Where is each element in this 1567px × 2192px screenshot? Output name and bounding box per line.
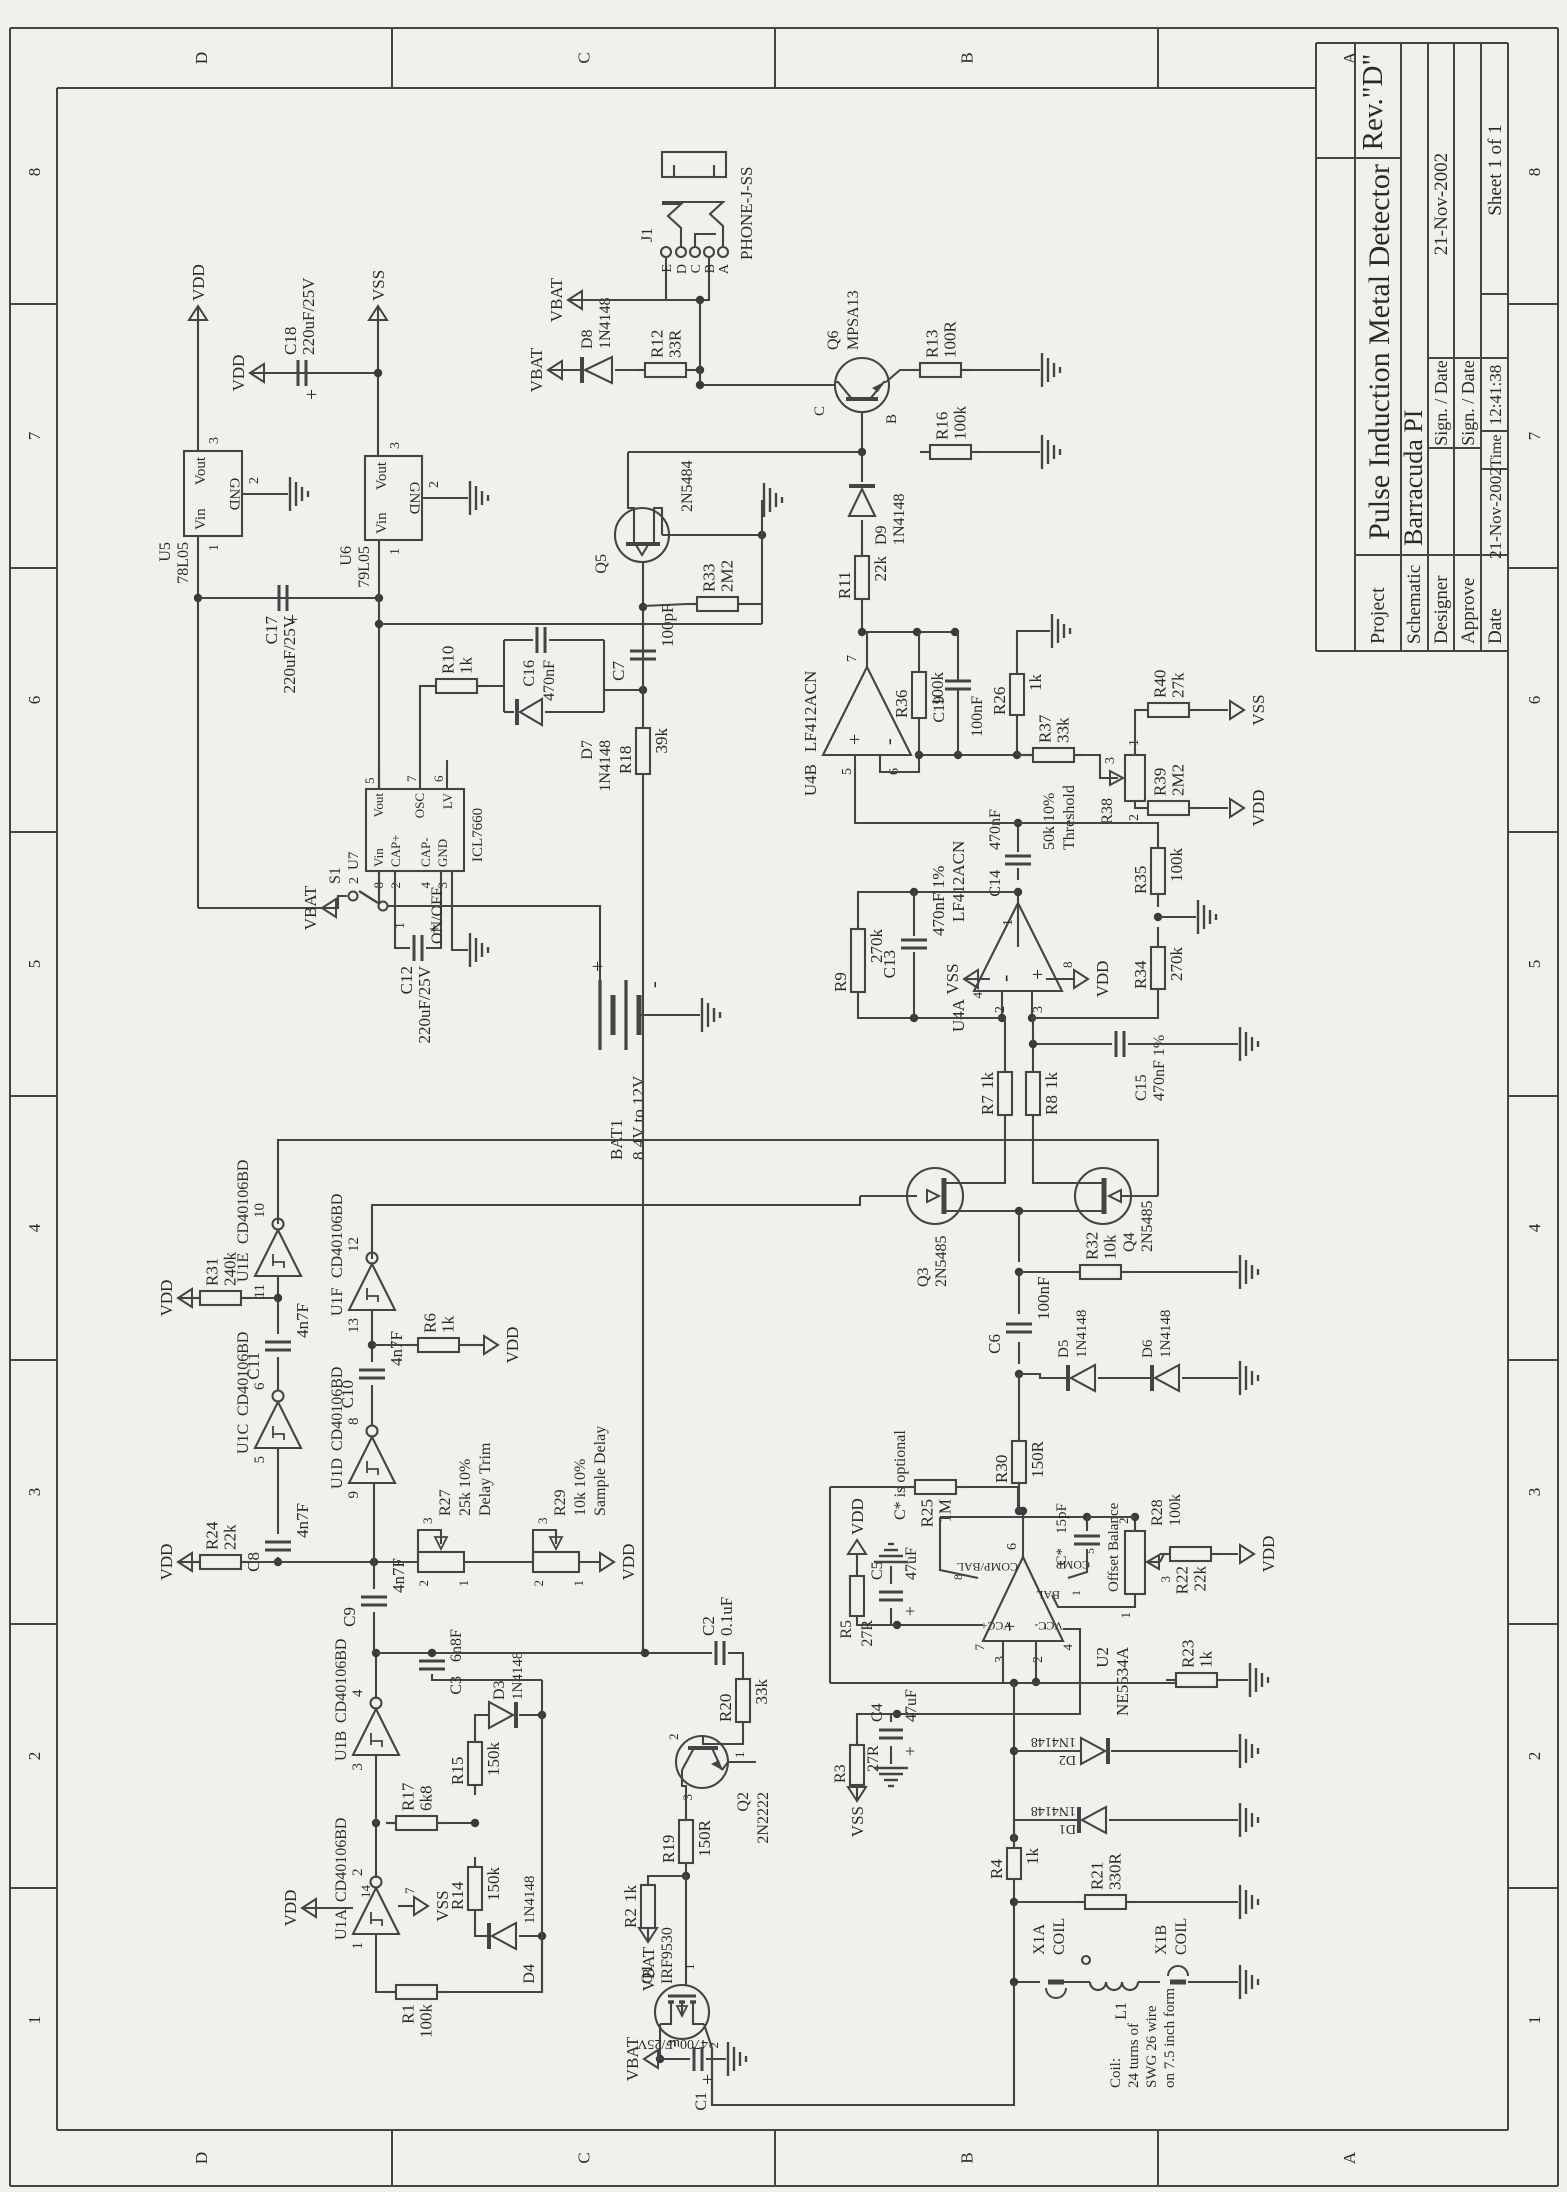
svg-text:ON/OFF: ON/OFF [429,887,446,944]
svg-text:330R: 330R [1106,1853,1125,1891]
svg-text:2N5485: 2N5485 [933,1235,950,1287]
svg-text:R10: R10 [439,646,458,674]
svg-text:-: - [643,981,665,988]
svg-text:VBAT: VBAT [301,885,320,930]
svg-text:C: C [812,406,828,416]
svg-text:240k: 240k [221,1252,240,1287]
svg-text:R3: R3 [832,1764,849,1783]
svg-text:5: 5 [25,960,44,969]
svg-text:2M2: 2M2 [718,560,737,592]
svg-text:VDD: VDD [848,1498,867,1535]
svg-text:VDD: VDD [157,1280,176,1317]
svg-text:R5: R5 [838,1620,855,1639]
svg-text:Designer: Designer [1431,575,1452,644]
svg-text:1: 1 [25,2016,44,2025]
svg-text:470nF: 470nF [987,809,1004,850]
svg-text:6n8F: 6n8F [448,1629,465,1662]
svg-text:R23: R23 [1179,1640,1198,1668]
svg-text:78L05: 78L05 [175,542,192,584]
svg-text:R11: R11 [835,571,854,599]
svg-text:2: 2 [427,481,442,488]
svg-text:2: 2 [1127,814,1142,821]
svg-text:D9: D9 [873,525,890,545]
svg-text:C1: C1 [693,2092,710,2111]
svg-text:R38: R38 [1099,798,1116,825]
svg-text:VSS: VSS [369,270,388,301]
svg-text:MPSA13: MPSA13 [845,290,862,350]
svg-text:4n7F: 4n7F [293,1503,312,1538]
svg-text:33k: 33k [752,1679,771,1705]
svg-text:8.4V to 12V: 8.4V to 12V [629,1075,648,1160]
svg-text:1M: 1M [936,1499,955,1523]
svg-text:Q1: Q1 [639,1964,656,1984]
svg-text:D1: D1 [1059,1821,1076,1836]
svg-text:100nF: 100nF [1034,1277,1053,1320]
svg-text:2N5484: 2N5484 [679,460,696,512]
svg-text:GND: GND [435,839,450,867]
svg-text:U1B: U1B [333,1731,350,1761]
svg-text:47uF: 47uF [903,1689,920,1722]
svg-text:5: 5 [840,768,855,775]
svg-text:Vin: Vin [193,508,209,530]
svg-text:14: 14 [358,1885,373,1899]
svg-text:C10: C10 [338,1380,357,1408]
svg-text:B: B [884,414,900,424]
svg-text:25k 10%: 25k 10% [457,1459,474,1516]
svg-text:A: A [717,263,732,274]
svg-text:6: 6 [431,775,446,782]
svg-text:2: 2 [347,877,362,884]
svg-text:D4: D4 [521,1964,538,1984]
svg-text:R28: R28 [1149,1499,1166,1526]
svg-text:2: 2 [531,1580,546,1587]
svg-text:C*: C* [1054,1548,1070,1566]
svg-text:33R: 33R [666,329,685,358]
svg-text:C13: C13 [880,950,899,978]
svg-text:3: 3 [350,1763,366,1771]
svg-text:D5: D5 [1056,1340,1072,1358]
svg-text:Pulse Induction Metal Detector: Pulse Induction Metal Detector [1363,164,1396,540]
svg-text:U5: U5 [157,542,174,562]
svg-text:Time: Time [1488,434,1505,467]
svg-text:100k: 100k [1167,848,1186,883]
svg-text:C6: C6 [985,1334,1004,1354]
svg-text:-: - [878,738,900,745]
svg-text:VDD: VDD [619,1544,638,1581]
svg-text:100R: 100R [941,321,960,359]
svg-text:D: D [192,52,211,64]
svg-text:CD40106BD: CD40106BD [329,1194,346,1278]
svg-text:4: 4 [25,1223,44,1232]
svg-text:R13: R13 [923,330,942,358]
svg-text:24 turns of: 24 turns of [1126,2023,1142,2088]
svg-text:2: 2 [993,1006,1008,1013]
svg-text:VSS: VSS [848,1806,867,1837]
svg-text:50k 10%: 50k 10% [1041,793,1058,850]
svg-text:C17: C17 [262,616,281,645]
svg-text:6k8: 6k8 [417,1786,436,1812]
svg-text:220uF/25V: 220uF/25V [415,965,434,1043]
svg-text:R36: R36 [892,690,911,718]
svg-text:A: A [1340,2151,1359,2164]
svg-text:-: - [992,975,1017,982]
svg-text:D: D [675,264,690,274]
svg-text:6: 6 [25,696,44,705]
svg-text:7: 7 [402,1887,417,1894]
svg-text:R40: R40 [1151,670,1170,698]
svg-text:U1D: U1D [329,1458,346,1489]
svg-text:Schematic: Schematic [1404,565,1425,644]
svg-text:C12: C12 [397,966,416,994]
svg-text:R2: R2 [621,1908,640,1928]
svg-text:2: 2 [1525,1752,1544,1761]
svg-text:C* is optional: C* is optional [892,1430,909,1520]
svg-text:CAP+: CAP+ [388,834,403,867]
svg-text:Rev."D": Rev."D" [1357,54,1389,151]
svg-text:12:41:38: 12:41:38 [1486,365,1505,425]
svg-text:Q4: Q4 [1121,1232,1138,1252]
svg-text:VSS: VSS [1249,694,1268,725]
svg-text:39k: 39k [652,728,671,754]
svg-text:Vout: Vout [371,793,386,818]
svg-text:B: B [958,2152,977,2163]
svg-text:R24: R24 [203,1521,222,1550]
svg-text:1: 1 [682,1964,697,1971]
svg-text:Vout: Vout [374,461,390,490]
svg-text:11: 11 [252,1284,268,1298]
svg-text:7: 7 [845,655,860,662]
svg-text:6: 6 [252,1382,268,1390]
svg-text:R39: R39 [1151,768,1170,796]
svg-text:C9: C9 [340,1607,359,1627]
svg-text:7: 7 [972,1644,987,1651]
svg-text:21-Nov-2002: 21-Nov-2002 [1486,467,1505,559]
svg-text:2M2: 2M2 [1169,764,1188,796]
svg-text:D: D [192,2152,211,2164]
svg-text:1N4148: 1N4148 [522,1876,538,1924]
svg-text:3: 3 [388,442,403,449]
svg-text:Date: Date [1485,608,1506,644]
svg-text:R26: R26 [990,687,1009,715]
svg-text:7: 7 [1525,431,1544,440]
svg-text:100k: 100k [1167,1494,1184,1526]
svg-text:D3: D3 [491,1680,508,1700]
svg-text:S1: S1 [327,867,344,884]
svg-text:Q6: Q6 [825,330,842,350]
svg-text:U2: U2 [1093,1647,1112,1668]
svg-text:2: 2 [1116,1518,1131,1525]
svg-text:Sample Delay: Sample Delay [592,1426,609,1516]
svg-text:R30: R30 [992,1455,1011,1483]
svg-text:8: 8 [25,168,44,177]
svg-text:0.1uF: 0.1uF [717,1597,736,1636]
svg-text:VDD: VDD [157,1544,176,1581]
svg-text:8: 8 [1525,168,1544,177]
svg-text:VDD: VDD [189,264,208,301]
svg-text:NE5534A: NE5534A [1113,1646,1132,1716]
svg-text:COIL: COIL [1173,1918,1190,1955]
svg-text:4: 4 [970,992,985,999]
svg-text:IRF9530: IRF9530 [659,1927,676,1984]
svg-text:R4: R4 [987,1859,1006,1879]
svg-text:COMP/BAL: COMP/BAL [957,1560,1018,1574]
svg-text:470nF: 470nF [541,660,558,701]
svg-text:7: 7 [25,431,44,440]
svg-text:3: 3 [535,1518,550,1525]
svg-text:D2: D2 [1059,1752,1076,1767]
svg-text:R37: R37 [1036,714,1055,743]
svg-text:Coil:: Coil: [1108,2058,1124,2088]
svg-text:R19: R19 [659,1835,678,1863]
svg-text:L1: L1 [1113,2002,1130,2020]
svg-text:2: 2 [666,1734,681,1741]
svg-text:4n7F: 4n7F [387,1331,406,1366]
svg-text:VDD: VDD [503,1327,522,1364]
svg-text:Q3: Q3 [915,1267,932,1287]
svg-text:ICL7660: ICL7660 [470,808,486,862]
svg-text:B: B [958,52,977,63]
svg-text:R1: R1 [399,2004,418,2024]
svg-text:U1A: U1A [333,1908,350,1940]
svg-text:6: 6 [1525,696,1544,705]
svg-text:1: 1 [393,922,408,929]
svg-text:220uF/25V: 220uF/25V [280,615,299,693]
svg-text:+: + [900,1606,920,1616]
svg-text:Sheet 1 of 1: Sheet 1 of 1 [1485,124,1506,215]
svg-text:COIL: COIL [1051,1918,1068,1955]
svg-text:4: 4 [1525,1223,1544,1232]
svg-text:150R: 150R [695,1819,714,1857]
svg-text:1N4148: 1N4148 [1031,1803,1076,1818]
svg-text:Vout: Vout [193,456,209,485]
svg-text:1k: 1k [1023,1848,1042,1866]
svg-text:R6: R6 [421,1313,440,1333]
svg-text:E: E [660,264,675,273]
svg-text:5: 5 [362,778,377,785]
svg-text:BAL: BAL [1036,1588,1060,1602]
svg-text:LF412ACN: LF412ACN [949,841,968,922]
svg-text:1k: 1k [1042,1072,1061,1090]
svg-text:OSC: OSC [412,793,427,818]
svg-text:8: 8 [346,1418,362,1426]
svg-text:VDD: VDD [1249,790,1268,827]
svg-text:Sign. / Date: Sign. / Date [1431,360,1451,446]
svg-text:2: 2 [25,1752,44,1761]
svg-text:1N4148: 1N4148 [597,297,614,349]
svg-text:1: 1 [1118,1612,1133,1619]
svg-text:CD40106BD: CD40106BD [333,1818,350,1902]
svg-text:1: 1 [571,1580,586,1587]
svg-text:15pF: 15pF [1054,1503,1070,1534]
svg-text:3: 3 [420,1518,435,1525]
svg-text:100k: 100k [417,2004,436,2039]
svg-text:3: 3 [993,1656,1008,1663]
svg-text:+: + [587,961,609,972]
svg-text:C: C [689,264,704,273]
svg-text:150k: 150k [484,1742,503,1777]
svg-text:3: 3 [25,1488,44,1497]
svg-text:R15: R15 [448,1757,467,1785]
svg-text:100pF: 100pF [658,604,677,647]
svg-text:GND: GND [406,482,422,515]
svg-text:Approve: Approve [1458,578,1479,644]
svg-text:3: 3 [207,437,222,444]
svg-text:1: 1 [1001,919,1016,926]
svg-text:C: C [575,2152,594,2163]
svg-text:2: 2 [1031,1656,1046,1663]
svg-text:R18: R18 [616,746,635,774]
svg-text:VDD: VDD [281,1890,300,1927]
svg-text:U6: U6 [338,546,355,566]
svg-text:2: 2 [247,477,262,484]
svg-text:GND: GND [226,478,242,511]
svg-text:1k: 1k [1026,674,1045,692]
svg-text:VDD: VDD [229,355,248,392]
svg-text:Vin: Vin [374,512,390,534]
svg-text:J1: J1 [639,228,656,242]
svg-text:R27: R27 [437,1489,454,1516]
svg-text:R25: R25 [918,1499,937,1527]
svg-text:+: + [844,734,866,745]
svg-text:1: 1 [350,1942,366,1950]
svg-text:4n7F: 4n7F [293,1303,312,1338]
svg-text:U1F: U1F [329,1287,346,1316]
svg-text:R32: R32 [1083,1232,1102,1260]
svg-text:5: 5 [1525,960,1544,969]
svg-text:12: 12 [346,1237,362,1252]
svg-text:VDD: VDD [1259,1536,1278,1573]
svg-text:+: + [301,389,323,400]
svg-text:VCC+: VCC+ [980,1619,1012,1633]
svg-text:470nF 1%: 470nF 1% [929,866,948,936]
svg-text:C2: C2 [699,1616,718,1636]
svg-text:6: 6 [1005,1543,1020,1550]
svg-text:1: 1 [1525,2016,1544,2025]
svg-text:7: 7 [404,775,419,782]
svg-text:4: 4 [1060,1644,1075,1651]
svg-text:1N4148: 1N4148 [1031,1734,1076,1749]
svg-text:C3: C3 [448,1676,465,1695]
svg-text:R20: R20 [716,1694,735,1722]
svg-text:R21: R21 [1088,1862,1107,1890]
svg-text:27R: 27R [859,1620,876,1647]
svg-text:5: 5 [1083,1548,1097,1554]
svg-text:1k: 1k [457,657,476,675]
svg-text:U4A: U4A [949,998,968,1032]
svg-text:79L05: 79L05 [356,546,373,588]
svg-text:R35: R35 [1131,866,1150,894]
svg-text:+: + [900,1746,920,1756]
svg-text:13: 13 [346,1318,362,1333]
svg-text:R34: R34 [1131,960,1150,989]
svg-text:22k: 22k [1191,1566,1210,1592]
svg-text:CAP-: CAP- [418,837,433,867]
svg-text:1N4148: 1N4148 [1158,1310,1174,1358]
svg-text:R22: R22 [1173,1566,1192,1594]
svg-text:1: 1 [456,1580,471,1587]
svg-text:VDD: VDD [1093,961,1112,998]
svg-text:C11: C11 [244,1352,263,1380]
svg-text:Vin: Vin [371,848,386,867]
svg-text:270k: 270k [1167,947,1186,982]
svg-text:3: 3 [1031,1006,1046,1013]
svg-text:1: 1 [207,544,222,551]
svg-text:+: + [697,2074,719,2085]
svg-text:220uF/25V: 220uF/25V [299,277,318,355]
svg-text:1k: 1k [439,1316,458,1334]
svg-text:VBAT: VBAT [547,277,566,322]
svg-text:C4: C4 [869,1703,886,1722]
svg-text:C16: C16 [521,660,538,687]
svg-text:R33: R33 [700,564,719,592]
svg-text:X1A: X1A [1031,1923,1048,1955]
svg-text:21-Nov-2002: 21-Nov-2002 [1431,153,1452,255]
svg-text:LF412ACN: LF412ACN [801,671,820,752]
svg-text:4: 4 [350,1689,366,1697]
svg-text:22k: 22k [871,556,890,582]
svg-text:U7: U7 [346,851,362,870]
svg-text:on 7.5 inch form: on 7.5 inch form [1162,1988,1178,2088]
svg-text:1k: 1k [978,1072,997,1090]
svg-text:C7: C7 [609,661,628,681]
svg-text:Sign. / Date: Sign. / Date [1458,360,1478,446]
svg-text:C18: C18 [281,327,300,355]
svg-text:Delay Trim: Delay Trim [477,1442,494,1516]
svg-text:Project: Project [1367,587,1389,644]
svg-text:Threshold: Threshold [1061,785,1078,850]
svg-text:SWG 26 wire: SWG 26 wire [1144,2005,1160,2088]
svg-text:47uF: 47uF [903,1547,920,1580]
svg-text:1: 1 [388,548,403,555]
svg-text:27k: 27k [1169,672,1188,698]
svg-text:Q5: Q5 [593,554,610,574]
svg-text:10k 10%: 10k 10% [572,1459,589,1516]
svg-text:2: 2 [350,1869,366,1877]
svg-text:VCC-: VCC- [1034,1619,1063,1633]
svg-text:1N4148: 1N4148 [510,1652,526,1700]
svg-text:2N2222: 2N2222 [755,1792,772,1844]
svg-text:3: 3 [680,1794,695,1801]
svg-text:3: 3 [1525,1488,1544,1497]
svg-text:1: 1 [732,1752,747,1759]
svg-text:C5: C5 [869,1561,886,1580]
svg-text:CD40106BD: CD40106BD [235,1160,252,1244]
svg-text:1N4148: 1N4148 [1074,1310,1090,1358]
svg-text:150k: 150k [484,1867,503,1902]
svg-text:R14: R14 [448,1881,467,1910]
svg-text:22k: 22k [221,1524,240,1550]
svg-text:D6: D6 [1140,1339,1156,1358]
svg-text:R9: R9 [831,972,850,992]
svg-text:8: 8 [1060,962,1075,969]
svg-text:C19: C19 [931,696,948,723]
svg-text:U1C: U1C [235,1424,252,1454]
svg-text:PHONE-J-SS: PHONE-J-SS [737,166,756,260]
svg-text:X1B: X1B [1153,1925,1170,1955]
svg-text:CD40106BD: CD40106BD [333,1639,350,1723]
svg-text:1k: 1k [1197,1651,1216,1669]
svg-text:5: 5 [252,1456,268,1464]
svg-text:10: 10 [252,1203,268,1218]
svg-text:3: 3 [1158,1576,1173,1583]
svg-text:100k: 100k [951,406,970,441]
svg-text:Barracuda PI: Barracuda PI [1399,410,1428,546]
svg-text:C: C [575,52,594,63]
svg-text:1k: 1k [621,1885,640,1903]
svg-text:U4B: U4B [801,764,820,796]
svg-text:33k: 33k [1054,717,1073,743]
svg-text:Q2: Q2 [735,1792,752,1812]
